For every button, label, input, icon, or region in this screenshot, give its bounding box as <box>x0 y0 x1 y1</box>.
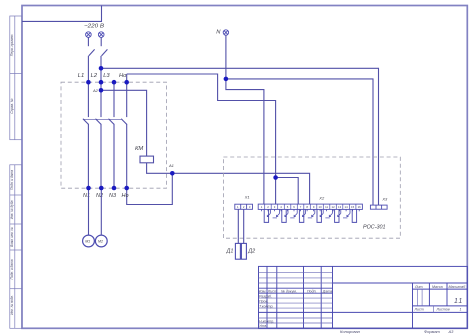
svg-text:Д2: Д2 <box>247 249 255 255</box>
svg-text:М1: М1 <box>85 239 90 243</box>
terminal N (⊗) <box>223 30 228 35</box>
wire N2 column lower <box>100 124 102 188</box>
switch SA1 pole 1 <box>88 37 94 56</box>
terminal strip X1 <box>235 204 253 209</box>
X2 removable link arrows <box>267 209 350 216</box>
node Ho at KM box bottom <box>124 186 129 191</box>
node N1 at KM box bottom <box>86 186 91 191</box>
wire motor M1 feed <box>88 188 90 235</box>
svg-text:Х2: Х2 <box>318 196 325 201</box>
switch SA1 pole 2 <box>101 37 107 56</box>
svg-text:Х3: Х3 <box>381 196 388 201</box>
svg-text:15: 15 <box>351 205 355 209</box>
terminal XT1 (⊗) <box>86 32 92 38</box>
node N junction <box>224 77 229 82</box>
svg-text:N2: N2 <box>96 193 103 199</box>
wire Ho drop <box>126 74 128 117</box>
svg-text:Подп. и дата: Подп. и дата <box>10 170 14 190</box>
left stamp top box (Перв. примен. / Справ. №) <box>10 16 22 140</box>
wire W2: Ho to X2 <box>127 74 276 204</box>
svg-text:~220 В: ~220 В <box>84 23 104 29</box>
KM contact blade pole 1 <box>83 119 89 125</box>
terminal XT2 (⊗) <box>98 32 104 38</box>
X2 terminal numbers <box>261 205 361 209</box>
node N3 at KM box bottom <box>112 186 117 191</box>
POC-301 dashed box <box>223 157 400 238</box>
svg-text:L1: L1 <box>78 73 84 79</box>
electrode D1 <box>235 243 240 259</box>
svg-text:L2: L2 <box>91 73 98 79</box>
wire W2 branch to X2 <box>276 178 299 205</box>
wire coil to A1 node <box>147 163 173 174</box>
title block texts <box>259 285 466 328</box>
motor M2 <box>95 235 107 247</box>
svg-text:Х1: Х1 <box>244 194 250 199</box>
svg-text:11: 11 <box>325 205 328 209</box>
svg-text:Дата: Дата <box>322 289 332 293</box>
KM contact blade pole 4 <box>121 119 127 125</box>
svg-text:М2: М2 <box>98 239 103 243</box>
wire W3: N down <box>225 35 227 79</box>
wire Ho column lower <box>126 124 128 188</box>
wire X1 to electrode D2 <box>243 209 245 243</box>
svg-text:Утв.: Утв. <box>259 324 267 328</box>
left stamp top box labels <box>10 34 14 114</box>
terminal strip X2 <box>258 204 362 209</box>
svg-text:Копировал: Копировал <box>340 329 361 334</box>
KM contact blade pole 2 <box>96 119 102 125</box>
wire W1: L2 to X3 pin 2 <box>101 68 379 205</box>
svg-text:№ докум.: № докум. <box>281 289 297 293</box>
KM contact blade pole 3 <box>109 119 115 125</box>
wire motor M2 feed <box>100 188 102 235</box>
node X2 branch junction <box>273 175 278 180</box>
svg-text:Инв. № дубл.: Инв. № дубл. <box>10 200 14 220</box>
X2 cell dividers <box>265 204 356 209</box>
svg-text:КМ: КМ <box>135 146 143 152</box>
svg-text:Hо: Hо <box>119 73 127 79</box>
X1 terminal numbers <box>237 205 251 209</box>
X2 link dashes <box>273 217 348 219</box>
node A2 junction <box>99 88 104 93</box>
svg-text:А2: А2 <box>92 88 99 93</box>
KM linkage line <box>83 118 121 120</box>
svg-text:Разраб.: Разраб. <box>259 295 272 299</box>
X3 terminal numbers <box>372 206 385 210</box>
svg-text:Лист: Лист <box>414 308 424 312</box>
svg-text:16: 16 <box>358 205 362 209</box>
wire L3 drop <box>113 82 115 117</box>
svg-text:Масштаб: Масштаб <box>449 285 467 289</box>
svg-text:Изм.: Изм. <box>259 289 267 293</box>
electrode D2 <box>241 243 246 259</box>
svg-text:Инв. № подл.: Инв. № подл. <box>10 295 14 315</box>
svg-text:L3: L3 <box>103 73 110 79</box>
X2 pin stubs <box>262 209 360 211</box>
wire N3 column lower <box>113 124 115 188</box>
node L1 at KM box top <box>86 80 91 85</box>
svg-text:Н.контр.: Н.контр. <box>259 319 274 323</box>
svg-text:Подп.: Подп. <box>307 289 317 293</box>
node L2 at KM box top <box>99 80 104 85</box>
wire W7: A1 down to Ho bottom <box>127 173 173 204</box>
contactor KM dashed box <box>61 82 167 188</box>
node N2 at KM box bottom <box>99 186 104 191</box>
wire L2 drop <box>100 56 102 117</box>
svg-text:Лист: Лист <box>267 289 277 293</box>
title block grid thick <box>259 266 468 328</box>
svg-text:Д1: Д1 <box>226 249 234 255</box>
title block grid thin <box>259 272 434 323</box>
svg-text:Т.контр.: Т.контр. <box>259 305 274 309</box>
left stamp bottom box (Подп. и дата / Инв. № дубл. / Взам. инв. № / Подп. и дата / Инв. № подл.) <box>10 165 22 328</box>
svg-text:Масса: Масса <box>432 285 443 289</box>
svg-text:Перв. примен.: Перв. примен. <box>10 34 14 57</box>
svg-text:12: 12 <box>332 205 336 209</box>
svg-text:13: 13 <box>338 205 342 209</box>
wire W6: A1 to X2 <box>172 173 309 204</box>
svg-text:Взам. инв. №: Взам. инв. № <box>10 227 14 247</box>
svg-text:10: 10 <box>319 205 323 209</box>
KM coil <box>140 156 154 163</box>
svg-text:Лит.: Лит. <box>414 285 423 289</box>
motor M1 <box>83 235 95 247</box>
node L2 junction <box>99 66 104 71</box>
X2 jumper plugs <box>264 209 356 222</box>
wire W3a: N to X3 pin 1 <box>226 79 373 205</box>
svg-text:1: 1 <box>460 308 462 312</box>
node Ho at KM box top <box>124 80 129 85</box>
svg-text:Листов: Листов <box>436 308 450 312</box>
supply wire from frame <box>22 6 102 22</box>
node A1 junction <box>170 171 175 176</box>
svg-text:14: 14 <box>345 205 349 209</box>
wire N1 column lower <box>87 124 89 188</box>
svg-text:Справ. №: Справ. № <box>10 98 14 114</box>
wire A2: L2 to KM coil <box>101 90 147 156</box>
svg-text:Формат: Формат <box>424 329 441 334</box>
wire X1 to electrode D1 <box>237 209 239 243</box>
wire L1 drop <box>87 56 89 117</box>
svg-text:N3: N3 <box>109 193 117 199</box>
left stamp bottom labels <box>10 170 14 315</box>
below-frame texts <box>340 329 454 334</box>
svg-text:А3: А3 <box>448 329 455 334</box>
wire W3b: N to X2 pin 1 <box>226 79 264 204</box>
terminal strip X3 <box>370 205 387 209</box>
svg-text:РОС-301: РОС-301 <box>363 224 386 230</box>
svg-text:Hо: Hо <box>122 193 129 199</box>
svg-text:11: 11 <box>454 298 463 305</box>
svg-text:Пров.: Пров. <box>259 300 268 304</box>
svg-text:Подп. и дата: Подп. и дата <box>10 259 14 279</box>
svg-text:А1: А1 <box>168 163 174 168</box>
node L3 at KM box top <box>112 80 117 85</box>
